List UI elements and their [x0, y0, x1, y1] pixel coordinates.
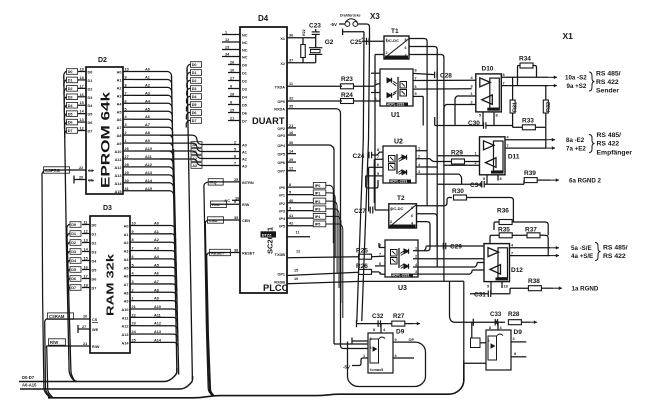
svg-text:NC: NC: [242, 34, 248, 38]
svg-text:A1: A1: [124, 233, 129, 237]
svg-text:1: 1: [415, 247, 417, 251]
svg-text:OP5: OP5: [277, 153, 285, 157]
svg-text:X1: X1: [280, 37, 285, 41]
svg-text:A13: A13: [122, 333, 129, 337]
svg-text:DUART: DUART: [252, 116, 285, 126]
svg-text:9: 9: [230, 85, 232, 89]
wire RW vertical down: [47, 346, 54, 398]
svg-text:5: 5: [415, 92, 417, 96]
svg-text:4a +S/E: 4a +S/E: [571, 253, 593, 260]
wire DTZZ stub: [261, 231, 277, 237]
IC D4 DUART SC2681 body: [240, 27, 287, 293]
wire T2 out top to R30: [417, 198, 453, 206]
svg-text:5: 5: [483, 177, 485, 181]
svg-text:A5: A5: [117, 110, 122, 114]
wire T2 out bottom: [417, 222, 431, 251]
svg-text:A2: A2: [145, 83, 150, 87]
wire X3 second row: [343, 31, 364, 33]
wire D11 out pin7 to 7a: [505, 147, 546, 149]
svg-text:2: 2: [418, 155, 420, 159]
svg-text:1: 1: [475, 152, 477, 156]
wire A6 from D2 with label: [123, 118, 133, 120]
wire U2 pin3: [416, 173, 459, 175]
wire OE tie on D2: [74, 179, 86, 181]
svg-text:D5: D5: [68, 112, 73, 116]
wire D4 to D4: [228, 96, 240, 98]
svg-text:11: 11: [289, 82, 293, 86]
svg-text:A1: A1: [145, 75, 150, 79]
svg-text:RS 485/: RS 485/: [603, 245, 628, 252]
svg-text:RS 422: RS 422: [597, 141, 620, 148]
svg-text:D0: D0: [242, 64, 247, 68]
wire U2 pin2 to R29: [416, 158, 430, 160]
wire A0 to D4 from EPROM fan: [160, 135, 240, 144]
wire OP3 from D4: [287, 134, 296, 136]
svg-text:D3: D3: [92, 251, 97, 255]
svg-text:42: 42: [289, 222, 293, 226]
svg-text:D5: D5: [71, 268, 76, 272]
svg-text:IP0: IP0: [279, 186, 285, 190]
wire D4 to D2 with label: [78, 104, 86, 106]
svg-text:D2: D2: [192, 79, 197, 83]
svg-text:15: 15: [294, 269, 298, 273]
wire D10 pin2 in: [446, 104, 476, 106]
svg-text:R39: R39: [524, 170, 536, 177]
svg-text:11: 11: [296, 231, 300, 235]
wire output 8a: [546, 139, 555, 141]
wire A6 from D3 with label: [130, 275, 140, 277]
svg-text:A11: A11: [115, 158, 122, 162]
svg-text:IP0: IP0: [315, 184, 321, 188]
bus vertical EPROM address band: [172, 76, 177, 374]
svg-text:D6: D6: [88, 121, 93, 125]
resistor R32 vertical: [543, 100, 548, 113]
svg-text:-5V: -5V: [330, 22, 337, 27]
svg-text:RXDA: RXDA: [274, 108, 285, 112]
svg-text:OP1: OP1: [277, 273, 285, 277]
wire RXDA down: [334, 109, 352, 349]
svg-text:C25: C25: [350, 39, 362, 46]
bus bottom third line: [48, 363, 464, 398]
svg-text:12: 12: [289, 167, 293, 171]
svg-text:A3: A3: [192, 164, 197, 168]
svg-text:8a -E2: 8a -E2: [566, 137, 585, 144]
wire D3 to D4: [228, 88, 240, 90]
bus D0-D7 bottom: [19, 368, 177, 382]
wire D12 bottom pins: [490, 282, 492, 294]
svg-text:7: 7: [511, 251, 513, 255]
wire X1 crystal to D4: [287, 37, 316, 39]
svg-text:D3: D3: [192, 87, 197, 91]
svg-text:6: 6: [125, 99, 127, 103]
svg-text:27: 27: [125, 155, 129, 159]
svg-text:8: 8: [377, 148, 379, 152]
wire D5 to D4: [228, 104, 240, 106]
brace sender: [589, 72, 595, 91]
svg-text:D5: D5: [92, 269, 97, 273]
wire D9 left pin inputs: [352, 340, 368, 342]
IC D3 RAM 32k body: [90, 216, 130, 353]
svg-text:7: 7: [132, 247, 134, 251]
wire D11 pin2: [444, 164, 480, 166]
svg-text:D3: D3: [88, 96, 93, 100]
svg-text:A14: A14: [115, 182, 123, 186]
svg-text:T2: T2: [397, 195, 405, 202]
wire U3 pin1: [413, 250, 424, 252]
svg-text:HCPL-2231: HCPL-2231: [390, 180, 408, 184]
wire output 1a: [553, 287, 562, 289]
svg-text:OP3: OP3: [277, 134, 285, 138]
wire OP6 from D4: [287, 161, 296, 163]
svg-text:RS 485/: RS 485/: [596, 71, 621, 78]
svg-text:A12: A12: [154, 322, 161, 326]
svg-text:Drahtbrücke: Drahtbrücke: [340, 14, 361, 18]
svg-text:R36: R36: [497, 208, 509, 215]
bus A0-A15 bottom: [20, 376, 193, 389]
brace send-receive: [595, 243, 601, 261]
svg-text:R28: R28: [508, 311, 520, 318]
svg-text:D2: D2: [71, 241, 76, 245]
brace empfaenger: [589, 135, 595, 153]
wire A8 from D3 with label: [130, 291, 140, 293]
svg-text:NC: NC: [242, 56, 248, 60]
svg-text:D1: D1: [192, 71, 197, 75]
svg-text:OP6: OP6: [277, 161, 285, 165]
svg-text:D6: D6: [71, 277, 76, 281]
svg-text:C27: C27: [354, 208, 366, 215]
svg-text:A13: A13: [145, 171, 152, 175]
optocoupler U2 HCPL-2231: [383, 146, 416, 183]
wire TXDB from D4: [287, 257, 359, 258]
timer D9 left block: [368, 333, 393, 373]
wire second supply rail: [362, 41, 370, 321]
svg-text:23: 23: [225, 46, 229, 50]
wire A11 from D3 with label: [130, 316, 140, 318]
svg-text:A7: A7: [145, 123, 150, 127]
svg-text:3: 3: [471, 85, 473, 89]
svg-text:R22: R22: [302, 29, 306, 36]
svg-text:3: 3: [132, 280, 134, 284]
wire OP1 down to C33: [450, 281, 474, 322]
svg-text:D7: D7: [71, 286, 76, 290]
wire RESET to D4: [210, 252, 240, 254]
svg-text:A2: A2: [124, 241, 129, 245]
svg-text:5: 5: [125, 107, 127, 111]
wire U2 pin7: [374, 158, 383, 160]
svg-text:DC-DC: DC-DC: [386, 38, 399, 43]
svg-text:A3: A3: [124, 250, 129, 254]
svg-text:IP2: IP2: [315, 200, 321, 204]
svg-text:A8: A8: [145, 131, 150, 135]
svg-text:A0: A0: [117, 71, 122, 75]
svg-text:A2: A2: [117, 86, 122, 90]
svg-text:CEN: CEN: [242, 219, 250, 223]
svg-text:8: 8: [489, 326, 491, 330]
svg-text:30: 30: [289, 141, 293, 145]
wire IP2 from D4 with label: [287, 202, 313, 204]
svg-text:10: 10: [294, 277, 298, 281]
svg-text:10: 10: [125, 68, 129, 72]
svg-text:A11: A11: [145, 155, 152, 159]
svg-text:A10: A10: [122, 308, 129, 312]
svg-text:7: 7: [507, 144, 509, 148]
svg-text:X3: X3: [370, 12, 380, 21]
svg-text:C23: C23: [309, 23, 321, 30]
wire T1 out top rail: [409, 39, 427, 206]
svg-text:R/W: R/W: [50, 340, 58, 345]
wire IP1 from D4 with label: [287, 194, 313, 196]
wire A7 from D3 with label: [130, 283, 140, 285]
wire R35 left down: [490, 235, 493, 243]
svg-text:C28: C28: [440, 72, 452, 79]
svg-text:7: 7: [415, 76, 417, 80]
wire D12 out pin4 to 5a: [510, 247, 551, 249]
line driver D10: [476, 74, 502, 112]
wire NC pin on D4: [222, 34, 240, 36]
svg-text:9a +S2: 9a +S2: [567, 83, 587, 90]
svg-text:A1: A1: [242, 151, 247, 155]
svg-text:19: 19: [80, 68, 84, 72]
wire A10 from D3 with label: [130, 308, 140, 310]
wire D6 to D4: [228, 112, 240, 114]
wire X2 crystal to D4: [287, 62, 316, 64]
svg-text:28: 28: [125, 163, 129, 167]
wire D5 to D2 with label: [78, 113, 86, 115]
svg-text:1: 1: [125, 139, 127, 143]
svg-text:3: 3: [289, 207, 291, 211]
svg-text:D5: D5: [192, 103, 197, 107]
svg-text:A10: A10: [115, 150, 122, 154]
svg-text:A7: A7: [117, 126, 122, 130]
svg-text:25: 25: [234, 178, 238, 182]
svg-text:21: 21: [289, 124, 293, 128]
svg-text:U1: U1: [391, 112, 400, 119]
svg-text:10: 10: [132, 222, 136, 226]
wire A8 from D2 with label: [123, 134, 133, 136]
svg-text:A13: A13: [154, 330, 161, 334]
svg-text:37: 37: [289, 58, 293, 62]
svg-text:A3: A3: [242, 165, 247, 169]
svg-text:U3: U3: [398, 285, 407, 292]
wire D10 out pin8 to 10a: [501, 76, 548, 78]
svg-text:IP2: IP2: [279, 202, 285, 206]
wire OP7 from D4: [287, 170, 296, 172]
wire R32 bottom to 7a: [545, 127, 547, 148]
wire A13 from D3 with label: [130, 333, 140, 335]
svg-text:A13: A13: [115, 174, 122, 178]
svg-text:A7: A7: [154, 280, 159, 284]
wire U2 pin5: [366, 175, 383, 177]
wire D0 to D3 with label: [82, 224, 90, 226]
svg-text:A3: A3: [117, 94, 122, 98]
IC D2 EPROM 64k body: [86, 67, 123, 194]
wire A2 from D3 with label: [130, 241, 140, 243]
svg-text:R34: R34: [519, 56, 531, 63]
svg-text:28: 28: [230, 93, 234, 97]
svg-text:T1: T1: [391, 28, 399, 35]
wire CEN to D4: [208, 219, 240, 221]
svg-text:D3: D3: [242, 88, 247, 92]
wire A5 from D3 with label: [130, 266, 140, 268]
svg-text:D7: D7: [88, 130, 93, 134]
svg-text:D0: D0: [68, 70, 73, 74]
svg-text:A12: A12: [115, 166, 122, 170]
wire TXDA into U1 jog: [377, 85, 379, 87]
wire D7 to D4: [228, 120, 240, 122]
svg-text:6: 6: [415, 85, 417, 89]
wire U3 pin2: [413, 258, 484, 260]
svg-text:2: 2: [471, 100, 473, 104]
svg-text:D5: D5: [88, 113, 93, 117]
wire INTRN to D4: [209, 181, 240, 183]
line driver D12: [484, 244, 510, 282]
capacitor C29: [442, 243, 444, 250]
svg-text:15: 15: [80, 101, 84, 105]
svg-text:17: 17: [84, 275, 88, 279]
wire D11 pin1: [437, 155, 479, 157]
svg-text:9: 9: [395, 338, 397, 342]
svg-text:A9: A9: [154, 297, 159, 301]
svg-text:20: 20: [83, 315, 87, 319]
svg-text:2: 2: [125, 131, 127, 135]
wire column 341 to D9: [340, 108, 342, 110]
svg-text:8: 8: [125, 83, 127, 87]
svg-text:1a RGND: 1a RGND: [572, 286, 599, 293]
svg-text:C31: C31: [474, 292, 486, 299]
wire IP3 from D4 with label: [287, 210, 313, 212]
wire NC pin on D4: [222, 41, 240, 43]
svg-text:A10: A10: [145, 147, 152, 151]
svg-text:12: 12: [84, 230, 88, 234]
svg-text:5: 5: [289, 191, 291, 195]
svg-text:8: 8: [230, 101, 232, 105]
svg-text:3: 3: [125, 123, 127, 127]
wire A7 from D2 with label: [123, 126, 133, 128]
svg-text:A14: A14: [145, 179, 153, 183]
svg-text:27: 27: [230, 77, 234, 81]
svg-text:A12: A12: [145, 163, 152, 167]
wire A0 from D2 with label: [123, 71, 133, 73]
wire D1 to D3 with label: [82, 233, 90, 235]
bus vertical RAM data band: [67, 229, 77, 381]
wire C30 rail: [435, 125, 484, 127]
svg-text:8: 8: [405, 38, 407, 42]
wire U1 pin1: [371, 72, 380, 74]
wire D9 right outputs: [511, 341, 527, 343]
wire A3 from D3 with label: [130, 250, 140, 252]
svg-text:3: 3: [415, 270, 417, 274]
wire IP5 from D4 with label: [287, 225, 313, 227]
optocoupler U3 HCPL-2231: [385, 240, 418, 277]
wire TXDA from D4: [287, 85, 342, 87]
svg-text:A8: A8: [124, 291, 129, 295]
svg-text:A0-A15: A0-A15: [22, 383, 37, 388]
svg-text:13: 13: [84, 239, 88, 243]
svg-text:CS: CS: [88, 169, 94, 173]
svg-text:SC2681: SC2681: [266, 227, 275, 254]
wire WE tie on D3: [78, 328, 90, 330]
wire TXDB R25 jog: [352, 256, 354, 258]
svg-text:30: 30: [125, 179, 129, 183]
wire OP1 from D4: [287, 272, 359, 275]
wire D1 to D4: [228, 72, 240, 74]
svg-text:2: 2: [375, 80, 377, 84]
svg-text:A11: A11: [122, 316, 129, 320]
wire A4 from D2 with label: [123, 102, 133, 104]
svg-text:32: 32: [289, 97, 293, 101]
resistor R31 vertical: [510, 100, 515, 113]
wire output 10a: [548, 76, 557, 78]
svg-text:D1: D1: [68, 79, 73, 83]
wire U3 pin3: [413, 273, 470, 275]
wire A0 from D3 with label: [130, 225, 140, 227]
wire A15 from D2 with label: [123, 190, 133, 192]
svg-text:D2: D2: [92, 242, 97, 246]
svg-text:C33: C33: [490, 311, 502, 318]
wire U1 pin6: [413, 88, 472, 90]
wire A12 from D2 with label: [123, 166, 133, 168]
svg-text:A14: A14: [154, 338, 162, 342]
svg-text:A0: A0: [124, 225, 129, 229]
svg-text:1: 1: [418, 147, 420, 151]
svg-text:RS 422: RS 422: [596, 79, 619, 86]
svg-text:D9: D9: [514, 329, 523, 336]
svg-text:12: 12: [296, 250, 300, 254]
svg-text:D11: D11: [508, 154, 520, 161]
svg-text:D6: D6: [68, 121, 73, 125]
svg-text:IP1: IP1: [315, 192, 321, 196]
svg-text:HCPL-2231: HCPL-2231: [387, 103, 405, 107]
wire A1 from D2 with label: [123, 78, 133, 80]
svg-text:5: 5: [379, 271, 381, 275]
svg-text:R27: R27: [393, 313, 405, 320]
wire U1 pin7: [413, 79, 476, 81]
wire D9 loop: [348, 342, 426, 387]
svg-text:5: 5: [487, 285, 489, 289]
wire D2 to D2 with label: [78, 87, 86, 89]
timer D9 right block: [486, 330, 511, 370]
wire column 334 to D9 input: [333, 321, 335, 345]
wire A11 from D2 with label: [123, 158, 133, 160]
wire output 4a: [550, 255, 559, 257]
svg-text:A9: A9: [124, 300, 129, 304]
svg-text:R/W: R/W: [92, 345, 100, 349]
wire A1 to D4 from EPROM fan: [160, 143, 240, 151]
svg-text:17: 17: [80, 84, 84, 88]
wire RXDB down to D9 right: [463, 281, 465, 363]
svg-text:IRQ: IRQ: [210, 180, 217, 185]
svg-text:8: 8: [514, 352, 516, 356]
svg-text:OP4: OP4: [277, 144, 285, 148]
svg-text:18: 18: [80, 76, 84, 80]
svg-text:D1: D1: [92, 233, 97, 237]
svg-text:A9: A9: [117, 142, 122, 146]
svg-text:8: 8: [132, 238, 134, 242]
svg-text:D2: D2: [88, 87, 93, 91]
wire OP4 from D4: [287, 144, 296, 146]
svg-text:31: 31: [125, 187, 129, 191]
wire D4 to D3 with label: [82, 260, 90, 262]
wire A2 from D2 with label: [123, 86, 133, 88]
bus vertical EPROM data band: [64, 76, 76, 381]
svg-text:1: 1: [363, 354, 365, 358]
svg-text:D7: D7: [68, 129, 73, 133]
svg-text:TXDA: TXDA: [275, 86, 286, 90]
wire A3 from D2 with label: [123, 94, 133, 96]
svg-text:12: 12: [225, 38, 229, 42]
svg-text:27: 27: [82, 325, 86, 329]
svg-text:8: 8: [289, 183, 291, 187]
